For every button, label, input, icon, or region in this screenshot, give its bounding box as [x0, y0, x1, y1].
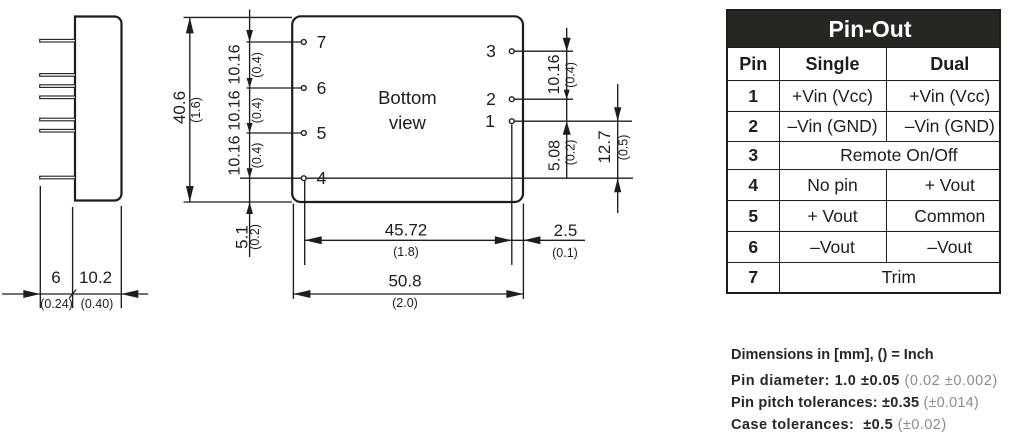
chain arrow down at pin6 [247, 78, 253, 88]
dimension line 50.8 [293, 293, 523, 295]
svg-text:(0.4): (0.4) [250, 52, 264, 78]
pin 7 circle [301, 40, 306, 45]
svg-text:40.6: 40.6 [170, 91, 189, 124]
svg-text:(0.2): (0.2) [248, 224, 262, 250]
svg-text:6: 6 [51, 268, 60, 287]
svg-text:4: 4 [317, 168, 327, 188]
extension line body right bottom [522, 204, 524, 300]
svg-text:Bottom: Bottom [378, 87, 437, 108]
svg-text:10.16: 10.16 [546, 54, 563, 94]
dimension line 6 / 10.2 [2, 293, 148, 295]
svg-text:(0.1): (0.1) [552, 246, 578, 260]
45.72 arrow right [495, 236, 512, 244]
side view pin row5 [40, 85, 76, 88]
svg-text:(0.4): (0.4) [250, 143, 264, 169]
svg-text:(0.40): (0.40) [81, 297, 114, 311]
12.7 arrow down at pin1 [614, 107, 621, 121]
pin7 extension line [247, 41, 302, 43]
svg-text:50.8: 50.8 [388, 272, 421, 291]
svg-text:1: 1 [485, 111, 495, 131]
svg-text:view: view [389, 112, 427, 133]
svg-text:6: 6 [317, 78, 327, 98]
pin2 extension line [514, 98, 573, 100]
pin 2 circle [509, 97, 514, 102]
pin 1 circle [509, 119, 514, 124]
right chain arrow up below pin1 [563, 121, 571, 135]
svg-text:(0.24): (0.24) [40, 297, 73, 311]
side view body [75, 17, 122, 201]
bottom view body [292, 16, 523, 202]
extension line body left bottom [292, 204, 294, 300]
extension line below pin4 [304, 181, 306, 265]
40.6 arrow down [186, 186, 194, 202]
extension line body top left [184, 16, 293, 18]
pin 5 circle [301, 131, 306, 136]
extension line body bottom left [184, 201, 293, 203]
chain arrow down at pin5 [247, 123, 253, 133]
svg-text:5: 5 [317, 123, 327, 143]
right chain arrow down at pin3 [563, 38, 571, 52]
side view pin row4 [40, 96, 76, 99]
svg-text:(2.0): (2.0) [392, 296, 418, 310]
svg-text:2.5: 2.5 [554, 221, 578, 240]
svg-text:(1.6): (1.6) [189, 97, 203, 123]
extension line side body left [72, 207, 74, 308]
extension line side body right [120, 206, 122, 308]
svg-text:5.08: 5.08 [547, 140, 564, 171]
svg-text:10.2: 10.2 [79, 268, 112, 287]
svg-text:(0.2): (0.2) [564, 140, 578, 166]
arrow left at 121.3 [121, 290, 138, 298]
technical drawing SVG [0, 0, 700, 441]
pin3 extension line [514, 50, 573, 52]
svg-text:(0.4): (0.4) [250, 98, 264, 124]
45.72 arrow left [305, 236, 322, 244]
side view pin row6 [40, 74, 76, 77]
svg-text:7: 7 [317, 32, 327, 52]
svg-text:3: 3 [486, 41, 496, 61]
pin5 extension line [247, 132, 302, 134]
dimension line 12.7 [617, 84, 619, 213]
svg-text:10.16: 10.16 [227, 90, 244, 130]
40.6 arrow up [186, 17, 194, 33]
tick junction 72.6 [69, 290, 76, 299]
pin6 extension line [247, 87, 302, 89]
pin 4 circle [301, 176, 306, 181]
svg-text:(0.5): (0.5) [617, 135, 631, 161]
50.8 arrow right [506, 290, 523, 298]
dimension line 45.72 and 2.5 [305, 239, 585, 241]
right chain arrow down at pin2 [564, 90, 570, 100]
dimension line 40.6 [189, 17, 191, 202]
svg-text:45.72: 45.72 [385, 221, 428, 240]
2.5 arrow left pointing at right edge [523, 236, 540, 244]
left chain dimension line [249, 10, 251, 258]
pin1 extension line [514, 120, 632, 122]
Pin-Out table [726, 9, 1001, 294]
svg-text:10.16: 10.16 [227, 44, 244, 84]
side view pin row7 [40, 39, 76, 42]
right chain dimension line [566, 28, 568, 178]
chain arrow down at pin4 [247, 168, 253, 178]
side view pin row2 [40, 129, 76, 132]
arrow right at 40.3 [23, 290, 40, 298]
side view pin row1 [40, 176, 76, 179]
extension line below pin1 [511, 125, 513, 266]
svg-text:(0.4): (0.4) [564, 62, 578, 88]
pin4 extension line long [240, 177, 633, 179]
50.8 arrow left [293, 290, 310, 298]
svg-text:12.7: 12.7 [595, 130, 614, 163]
svg-text:(1.8): (1.8) [393, 245, 419, 259]
chain arrow up at body bottom [246, 202, 253, 214]
side view pin row3 [40, 118, 76, 121]
extension line pin tips [39, 186, 41, 308]
chain arrow down at pin7 [246, 30, 253, 42]
pin 6 circle [301, 86, 306, 91]
svg-text:10.16: 10.16 [227, 135, 244, 175]
pin 3 circle [509, 49, 514, 54]
12.7 arrow up at pin4 [614, 178, 621, 192]
notes [731, 344, 998, 437]
svg-text:2: 2 [486, 89, 496, 109]
